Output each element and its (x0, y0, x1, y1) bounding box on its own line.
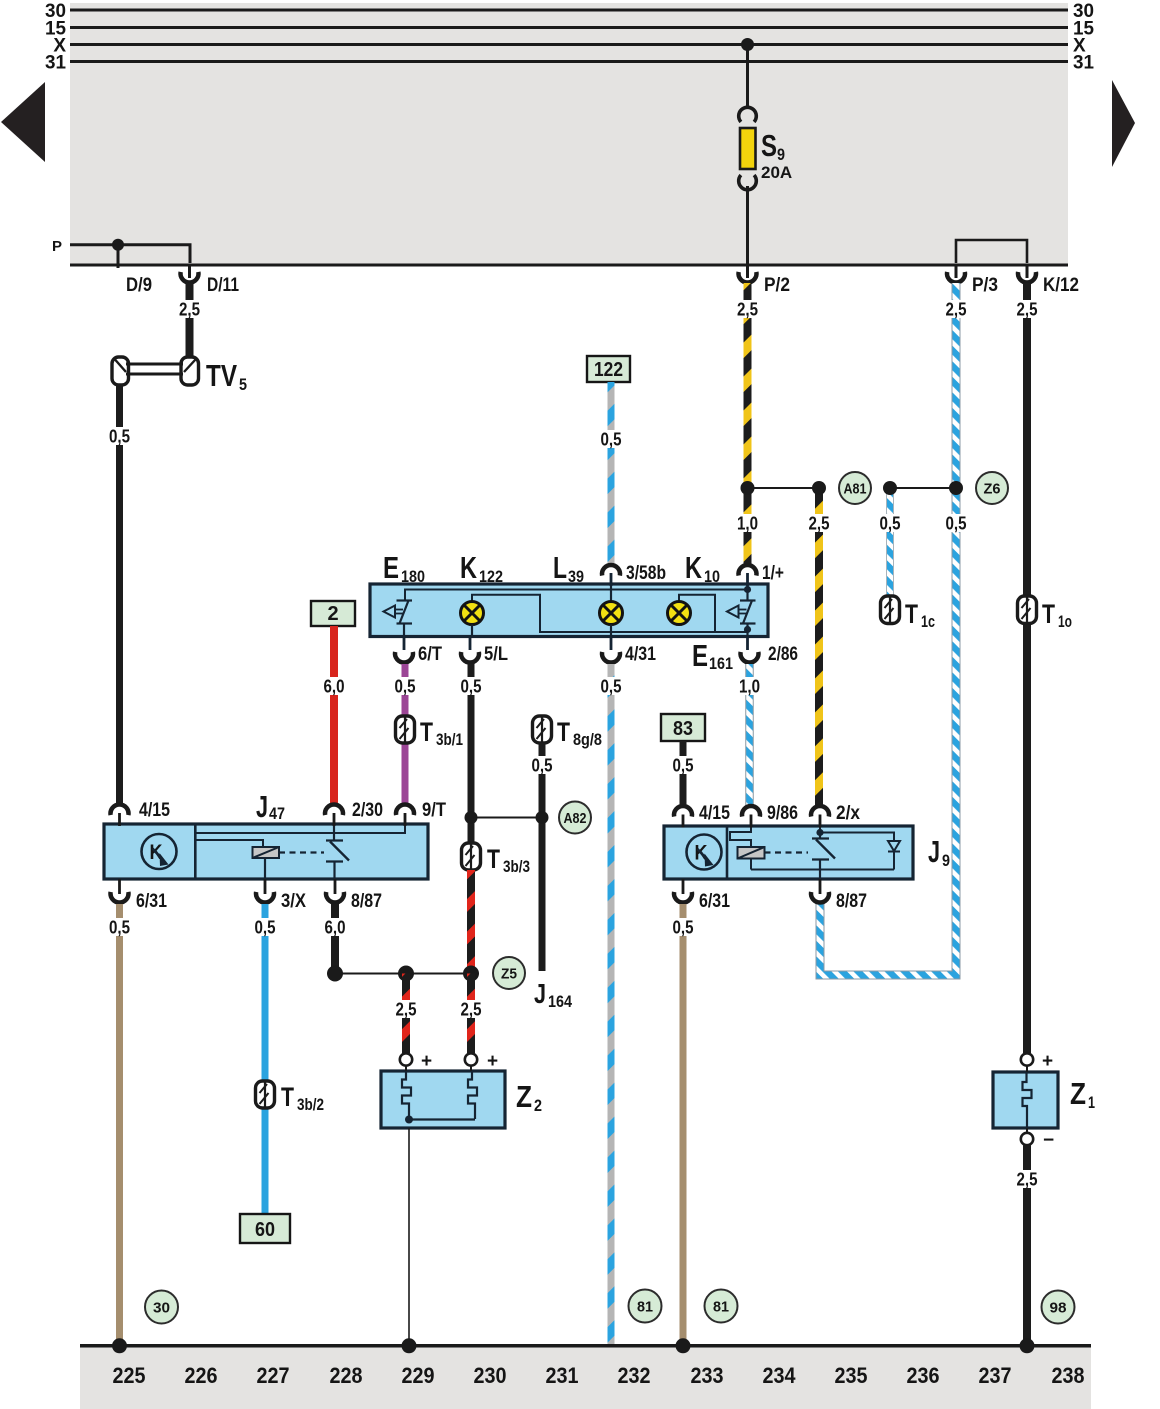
svg-text:9: 9 (942, 851, 950, 870)
wire 6/T to 9/T (violet 0,5) (402, 664, 409, 804)
svg-text:4/31: 4/31 (625, 644, 656, 665)
svg-text:9: 9 (777, 145, 785, 164)
svg-text:J: J (534, 978, 546, 1009)
svg-text:2,5: 2,5 (396, 1000, 417, 1020)
rail junction dot track 238 (1020, 1338, 1035, 1353)
wire Z2 output thin to track 229 (408, 1128, 410, 1346)
svg-text:0,5: 0,5 (946, 514, 967, 534)
svg-text:8/87: 8/87 (351, 891, 382, 912)
svg-text:0,5: 0,5 (673, 918, 694, 938)
svg-text:225: 225 (113, 1363, 146, 1388)
svg-text:0,5: 0,5 (880, 514, 901, 534)
fuse S9 body (740, 128, 756, 169)
wire T8g/8 to J164 (black 0,5) (539, 743, 546, 971)
svg-text:47: 47 (269, 804, 285, 823)
internal wire: K122 to bottom bus (472, 595, 748, 632)
terminal box 83 (661, 714, 705, 741)
svg-text:K: K (685, 550, 702, 585)
svg-text:0,5: 0,5 (601, 430, 622, 450)
wire 4/31 grey-blue 0,5 down to track 232 (608, 664, 615, 1346)
node label 81 (right) (705, 1290, 738, 1323)
svg-text:1: 1 (1088, 1093, 1095, 1112)
svg-text:228: 228 (330, 1363, 363, 1388)
svg-text:83: 83 (673, 718, 693, 740)
svg-text:226: 226 (185, 1363, 218, 1388)
svg-text:0,5: 0,5 (109, 427, 130, 447)
connector J47 9/T (404, 813, 407, 826)
jumper P/3 to K/12 inside band (956, 240, 1027, 263)
node label 30 (145, 1291, 178, 1324)
svg-text:0,5: 0,5 (601, 677, 622, 697)
svg-text:1,0: 1,0 (739, 677, 760, 697)
wire 2/86 to J9 9/86 (blue-white 1,0) (745, 664, 754, 806)
connector P/3 (947, 272, 965, 283)
bus line 15 (70, 26, 1068, 29)
connector J9 2/x (819, 815, 822, 828)
wire Z5 node to Z2 right + (red-black 2,5) (467, 974, 475, 1054)
top supply rail band (30/15/X/31) (70, 3, 1068, 265)
connector J47 2/30 (333, 813, 336, 826)
bus line X (70, 43, 1068, 46)
fuse S9 supply stub from X (741, 38, 754, 51)
svg-text:3b/1: 3b/1 (436, 730, 463, 749)
svg-text:5/L: 5/L (484, 644, 508, 665)
svg-text:20A: 20A (761, 163, 792, 182)
Z2 right + terminal (470, 1053, 472, 1071)
connector 4/31 (610, 636, 613, 650)
connector T1c (881, 596, 900, 624)
svg-text:30: 30 (153, 1300, 170, 1317)
heater element box Z2 (381, 1071, 505, 1128)
fuse S9 top hook (739, 107, 757, 122)
svg-text:L: L (553, 550, 567, 585)
svg-text:Z5: Z5 (501, 966, 517, 983)
lamp K122 (461, 602, 484, 637)
connector 2/86 (746, 636, 749, 650)
J47 divider (194, 824, 197, 879)
relay box J47 (104, 824, 428, 879)
svg-text:233: 233 (691, 1363, 724, 1388)
node Z5 link wire (335, 973, 471, 975)
svg-text:0,5: 0,5 (395, 677, 416, 697)
connector 6/T (403, 636, 406, 650)
J47 relay coil (253, 847, 280, 879)
svg-text:122: 122 (479, 567, 503, 586)
J9 K-circle symbol (687, 835, 722, 870)
svg-text:0,5: 0,5 (532, 756, 553, 776)
wire branch A81 black-yellow down to J9 2/x (815, 488, 823, 806)
heater element box Z1 (993, 1072, 1058, 1128)
J47 internal wire 9/T to divider (197, 824, 406, 833)
svg-text:238: 238 (1052, 1363, 1085, 1388)
svg-text:P/3: P/3 (972, 275, 998, 296)
svg-text:5: 5 (239, 375, 247, 394)
svg-text:122: 122 (594, 359, 623, 381)
svg-text:0,5: 0,5 (255, 918, 276, 938)
bus line 30 (70, 9, 1068, 12)
svg-text:3b/3: 3b/3 (503, 857, 530, 876)
fuse S9 bottom hook (739, 175, 757, 190)
connector D/11 (181, 272, 199, 283)
node label Z6 (976, 472, 1008, 504)
wire 2 to J47 2/30 (red 6,0) (330, 626, 338, 804)
svg-text:D/9: D/9 (126, 275, 152, 296)
svg-text:2: 2 (327, 603, 338, 625)
J9 internal bottom wire (751, 869, 894, 871)
bus line 31 (70, 60, 1068, 63)
node label A82 (559, 802, 591, 834)
J47 K-circle symbol (142, 834, 177, 869)
svg-text:180: 180 (401, 567, 425, 586)
J9 internal wire 2/x to diode (820, 826, 894, 841)
page arrow left (1, 82, 45, 162)
wire T1c blue-white 0,5 (886, 488, 894, 598)
node label 98 (1042, 1291, 1075, 1324)
svg-text:T: T (1042, 599, 1055, 629)
svg-text:1,0: 1,0 (737, 514, 758, 534)
svg-text:81: 81 (713, 1299, 729, 1316)
svg-text:2,5: 2,5 (179, 300, 200, 320)
svg-text:P/2: P/2 (764, 275, 790, 296)
wire J47 3/X light-blue 0,5 to terminal 60 (262, 904, 269, 1214)
wire P/2 black-yellow down to 1/+ (744, 283, 752, 564)
track numbers (113, 1363, 1085, 1388)
svg-text:9/T: 9/T (422, 800, 446, 821)
svg-text:60: 60 (255, 1219, 275, 1241)
svg-text:T: T (557, 717, 570, 747)
svg-text:2/86: 2/86 (768, 644, 798, 665)
wire K/12 black down to Z1 (1023, 283, 1031, 1053)
connector J47 8/87 (334, 879, 337, 894)
internal wire: E180 top bus to right switch (405, 590, 748, 601)
band bottom border (70, 264, 1068, 267)
svg-text:E: E (383, 550, 399, 585)
Z2 left + terminal (405, 1053, 407, 1071)
connector J47 4/15 (118, 813, 121, 826)
svg-text:J: J (928, 834, 940, 869)
svg-text:2,5: 2,5 (1017, 1170, 1038, 1190)
connector J9 4/15 (682, 815, 685, 828)
svg-text:8/87: 8/87 (836, 891, 867, 912)
Z1 + terminal (1026, 1051, 1028, 1072)
connector J9 6/31 (682, 879, 685, 894)
connector 3/58b (602, 565, 620, 576)
svg-text:Z: Z (516, 1079, 532, 1114)
wire Z5 node to Z2 left + (red-black 2,5) (402, 974, 410, 1054)
wire 5/L black 0,5 down to T3b/3 (468, 664, 475, 845)
svg-text:237: 237 (979, 1363, 1012, 1388)
svg-text:2,5: 2,5 (1017, 300, 1038, 320)
node label 81 (left) (629, 1290, 662, 1323)
junction dot D/9 on P rail (112, 239, 124, 251)
wire Z1 to track 238 (black 2,5) (1023, 1146, 1031, 1347)
svg-text:2,5: 2,5 (809, 514, 830, 534)
svg-text:229: 229 (402, 1363, 435, 1388)
connector T3b/3 (462, 843, 481, 870)
svg-text:10: 10 (704, 567, 720, 586)
wire fuse to P/2 (746, 186, 749, 265)
connector J9 9/86 (750, 815, 753, 828)
svg-text:S: S (761, 128, 777, 163)
svg-text:D/11: D/11 (207, 275, 239, 296)
wire J47 6/31 brown 0,5 to track 225 (116, 904, 123, 1346)
svg-text:161: 161 (709, 654, 733, 673)
svg-text:227: 227 (257, 1363, 290, 1388)
node P rail inside band (70, 245, 190, 263)
svg-text:Z6: Z6 (984, 481, 1001, 498)
svg-text:0,5: 0,5 (461, 677, 482, 697)
svg-text:A81: A81 (844, 481, 867, 498)
svg-text:TV: TV (206, 358, 237, 393)
svg-text:4/15: 4/15 (139, 800, 170, 821)
bus labels left (45, 1, 66, 74)
svg-text:2,5: 2,5 (737, 300, 758, 320)
connector T1o (1018, 596, 1037, 624)
connector T3b/1 (396, 716, 415, 743)
connector 1/+ (739, 565, 757, 576)
svg-text:6/31: 6/31 (136, 891, 167, 912)
svg-text:+: + (421, 1051, 432, 1072)
svg-text:1o: 1o (1058, 612, 1072, 631)
svg-text:236: 236 (907, 1363, 940, 1388)
svg-text:98: 98 (1050, 1300, 1067, 1317)
J9 coil-switch dashed link (765, 851, 809, 853)
svg-text:230: 230 (474, 1363, 507, 1388)
svg-text:8g/8: 8g/8 (573, 730, 602, 749)
svg-text:2,5: 2,5 (461, 1000, 482, 1020)
wire J9 6/31 brown 0,5 to track 233 (680, 904, 687, 1346)
switch E161 internal (at 1/+) (727, 584, 756, 636)
internal wire: K10 to bottom bus (679, 595, 715, 632)
svg-text:232: 232 (618, 1363, 651, 1388)
svg-text:6,0: 6,0 (324, 677, 345, 697)
svg-text:A82: A82 (564, 810, 587, 827)
current track rail (80, 1344, 1091, 1348)
connector J9 8/87 (819, 879, 822, 894)
svg-text:234: 234 (763, 1363, 796, 1388)
svg-text:4/15: 4/15 (699, 803, 730, 824)
J47 relay switch (326, 824, 349, 879)
rail junction dot track 225 (112, 1338, 127, 1353)
wire T3b/3 to Z5 node (red-black) (467, 870, 475, 974)
svg-text:E: E (692, 638, 708, 673)
J9 internal coil feed from 9/86 (730, 826, 751, 847)
svg-text:3/58b: 3/58b (626, 563, 666, 584)
terminal box 60 (240, 1214, 290, 1243)
svg-text:6/31: 6/31 (699, 891, 730, 912)
svg-text:81: 81 (637, 1299, 653, 1316)
J9 relay switch (812, 833, 835, 880)
wire J47 8/87 black 6,0 to Z5 node (331, 904, 339, 974)
svg-text:2/30: 2/30 (352, 800, 383, 821)
svg-text:+: + (1042, 1051, 1053, 1072)
svg-text:−: − (1043, 1130, 1054, 1151)
svg-text:31: 31 (1073, 53, 1094, 74)
relay box J9 (664, 826, 913, 879)
rail junction dot track 233 (676, 1338, 691, 1353)
svg-text:K/12: K/12 (1043, 275, 1079, 296)
svg-text:231: 231 (546, 1363, 579, 1388)
node A81 link wire (748, 487, 820, 489)
component box E180/K122/L39/K10 (370, 584, 768, 637)
node label Z5 (493, 957, 525, 989)
connector 5/L (469, 636, 472, 650)
svg-text:T: T (420, 717, 433, 747)
terminal box 2 (311, 601, 355, 626)
terminal box 122 (587, 356, 630, 382)
switch E180 (384, 601, 413, 637)
Z1 - terminal (1026, 1128, 1028, 1146)
connector T8g/8 (533, 716, 552, 743)
svg-text:164: 164 (548, 992, 572, 1011)
node Z6 link wire (890, 487, 956, 489)
connector J47 3/X (264, 879, 267, 894)
connector J47 6/31 (118, 879, 121, 894)
connector P/2 (739, 272, 757, 283)
svg-text:0,5: 0,5 (673, 756, 694, 776)
svg-text:T: T (281, 1082, 294, 1112)
page arrow right (1112, 80, 1135, 167)
svg-text:2: 2 (534, 1096, 542, 1115)
bus labels right (1073, 1, 1094, 74)
svg-text:39: 39 (568, 567, 584, 586)
svg-text:Z: Z (1070, 1076, 1086, 1111)
J9 divider (726, 826, 729, 879)
svg-text:P: P (52, 238, 62, 255)
svg-text:1/+: 1/+ (762, 563, 784, 584)
svg-text:9/86: 9/86 (767, 803, 798, 824)
pin stub D/9 (117, 244, 120, 268)
component TV5 twin connector (112, 357, 199, 385)
wire P/3 blue-white loop to J9 8/87 (820, 283, 956, 975)
lamp L39 (600, 584, 623, 636)
svg-text:6/T: 6/T (418, 644, 442, 665)
J47 coil-switch dashed link (279, 851, 324, 853)
wire TV5 to J47 4/15 (black 0,5) (116, 384, 123, 804)
rail junction dot track 229 (402, 1338, 417, 1353)
svg-text:235: 235 (835, 1363, 868, 1388)
svg-text:3/X: 3/X (281, 891, 306, 912)
svg-text:T: T (905, 599, 918, 629)
svg-text:6,0: 6,0 (325, 918, 346, 938)
svg-text:J: J (256, 789, 268, 824)
svg-text:3b/2: 3b/2 (297, 1095, 324, 1114)
connector K/12 (1018, 272, 1036, 283)
wire 83 to J9 4/15 (black 0,5) (680, 741, 687, 806)
wire D/11 to TV5 (black 2,5) (186, 283, 194, 358)
node label A81 (839, 472, 871, 504)
svg-text:K: K (460, 550, 477, 585)
lamp K10 (668, 602, 691, 625)
svg-text:2,5: 2,5 (946, 300, 967, 320)
svg-text:1c: 1c (921, 612, 935, 631)
J9 relay coil (738, 847, 765, 870)
J9 diode (888, 841, 900, 870)
svg-text:T: T (487, 844, 500, 874)
connector T3b/2 (256, 1081, 275, 1108)
svg-text:0,5: 0,5 (109, 918, 130, 938)
svg-text:+: + (487, 1051, 498, 1072)
svg-text:2/x: 2/x (836, 803, 860, 824)
J47 internal wire coil feed (197, 840, 264, 847)
node A82 link wire (471, 817, 542, 819)
wire 122 to 3/58b (grey-blue 0,5) (608, 382, 615, 564)
svg-text:31: 31 (45, 53, 66, 74)
